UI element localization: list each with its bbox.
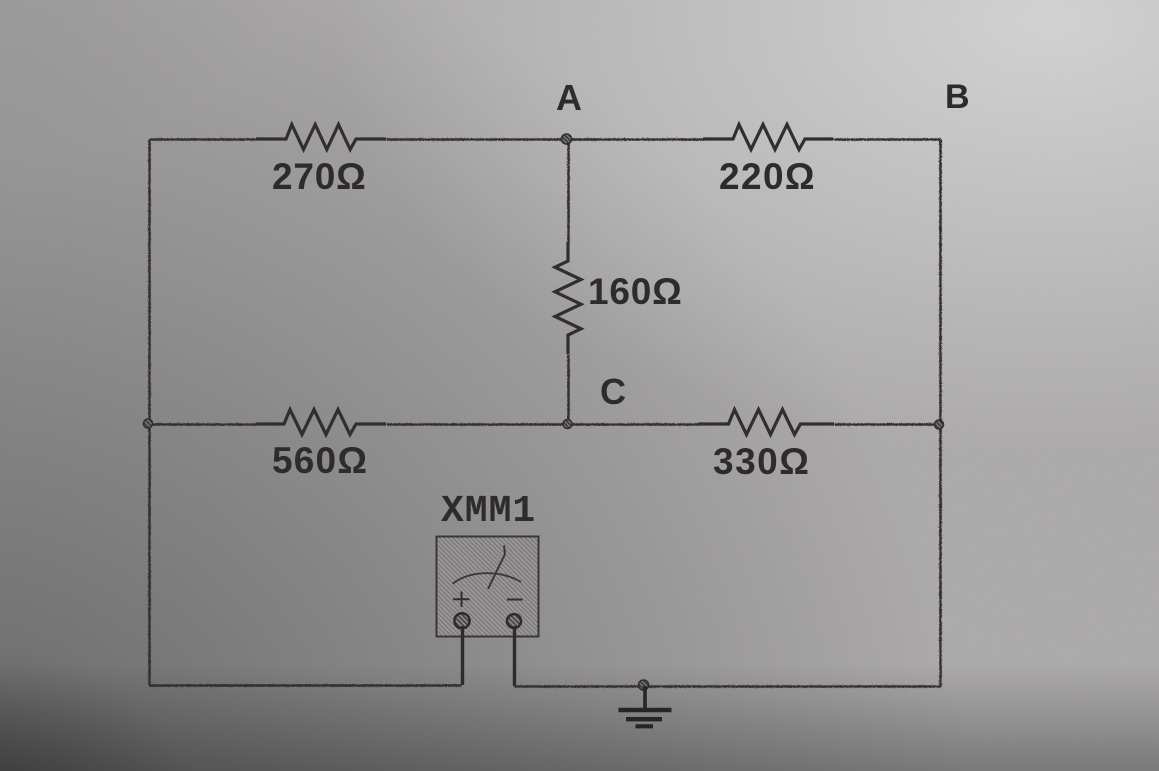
resistor R1 270 ohm <box>256 125 386 150</box>
wire bottom right segment <box>514 685 940 688</box>
wire bottom left segment <box>149 684 461 687</box>
wire terminal - stub <box>513 626 516 686</box>
resistor R3 160 ohm (vertical) <box>555 242 581 354</box>
wire right vertical <box>939 139 942 686</box>
resistor R4 560 ohm <box>256 410 386 435</box>
multimeter terminal + <box>454 613 469 628</box>
multimeter terminal - <box>507 614 521 628</box>
node junction dot right middle <box>935 420 944 429</box>
wire middle horizontal <box>149 423 256 426</box>
wire middle vertical A to 160 ohm <box>567 139 570 242</box>
multimeter minus sign <box>507 599 523 601</box>
label value 220 ohm <box>719 158 816 195</box>
label value 270 ohm <box>272 158 367 195</box>
label node A <box>556 80 582 116</box>
label value 160 ohm <box>588 273 683 310</box>
label XMM1 <box>441 493 536 531</box>
label value 560 ohm <box>272 442 368 479</box>
multimeter meter arc <box>453 573 522 584</box>
wire left vertical <box>148 139 151 685</box>
node A junction dot <box>562 134 572 144</box>
multimeter XMM1 body <box>437 537 539 637</box>
wire terminal + stub <box>461 626 464 685</box>
node junction dot at ground <box>639 680 649 690</box>
wire 160 ohm to node C <box>567 354 570 424</box>
multimeter plus sign <box>453 592 470 608</box>
node junction dot left middle <box>144 419 153 428</box>
label node B <box>945 80 970 114</box>
resistor R2 220 ohm <box>703 125 833 150</box>
ground symbol <box>619 686 672 726</box>
wire top horizontal from top-left corner to node B corner <box>149 139 940 686</box>
resistor R5 330 ohm <box>698 410 834 435</box>
label node C <box>600 374 626 410</box>
node C junction dot <box>563 420 572 429</box>
label value 330 ohm <box>713 443 810 480</box>
multimeter needle <box>488 546 505 590</box>
